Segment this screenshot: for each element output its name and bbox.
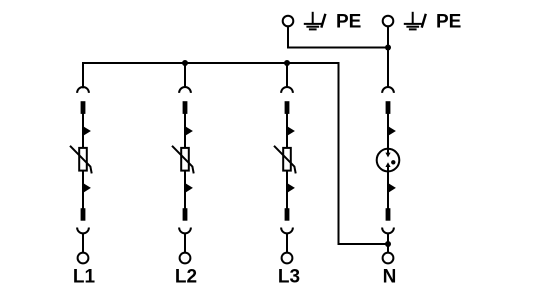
contact bar upper L1 bbox=[81, 101, 86, 114]
svg-text:L2: L2 bbox=[175, 267, 197, 288]
wire L3 upper bbox=[286, 114, 288, 149]
wire PE link horizontal bbox=[288, 47, 388, 49]
disconnect arrow lower L2 bbox=[186, 184, 193, 193]
ground symbol right bbox=[404, 12, 422, 30]
terminal circle L3 bbox=[282, 253, 293, 264]
junction PE node bbox=[385, 45, 391, 51]
contact bar lower N bbox=[386, 208, 391, 221]
wire L1 riser bbox=[82, 63, 84, 87]
disconnect arrow upper N bbox=[389, 127, 396, 135]
wire L2 stem to terminal bbox=[184, 234, 186, 253]
contact bar lower L1 bbox=[81, 208, 86, 221]
disconnect arrow lower L3 bbox=[288, 184, 295, 193]
contact bar lower L3 bbox=[285, 208, 290, 221]
svg-text:N: N bbox=[383, 267, 397, 288]
wire bus right drop bbox=[338, 63, 340, 244]
connector arc bottom N bbox=[382, 228, 394, 234]
svg-text:L3: L3 bbox=[278, 267, 300, 288]
terminal circle L1 bbox=[78, 253, 89, 264]
svg-text:PE: PE bbox=[336, 12, 361, 33]
wire N stem to terminal bbox=[387, 234, 389, 253]
wire L2 lower bbox=[184, 171, 186, 209]
disconnect arrow lower N bbox=[389, 184, 396, 193]
wire N upper bbox=[387, 114, 389, 149]
wire L1 upper bbox=[82, 114, 84, 149]
contact bar lower L2 bbox=[183, 208, 188, 221]
disconnect arrow upper L3 bbox=[288, 127, 295, 135]
terminal circle PE left bbox=[283, 16, 294, 27]
terminal circle PE right bbox=[383, 16, 394, 27]
svg-text:PE: PE bbox=[436, 12, 461, 33]
connector arc top N bbox=[382, 87, 394, 93]
junction bus at L3 bbox=[284, 60, 290, 66]
connector arc bottom L2 bbox=[179, 228, 191, 234]
wire L3 lower bbox=[286, 171, 288, 209]
junction N node bbox=[385, 241, 391, 247]
contact bar upper N bbox=[386, 101, 391, 114]
wire L2 upper bbox=[184, 114, 186, 149]
disconnect arrow upper L2 bbox=[186, 127, 193, 135]
svg-text:L1: L1 bbox=[73, 267, 96, 288]
wire L2 riser bbox=[184, 63, 186, 87]
label / PE right bbox=[422, 12, 462, 33]
gas discharge tube N bbox=[377, 149, 400, 172]
disconnect arrow upper L1 bbox=[84, 127, 91, 135]
disconnect arrow lower L1 bbox=[84, 184, 91, 193]
varistor L1 bbox=[70, 146, 92, 174]
wire N branch link bbox=[339, 243, 389, 245]
wire L1 stem to terminal bbox=[82, 234, 84, 253]
varistor L2 bbox=[172, 146, 194, 174]
connector arc top L3 bbox=[281, 87, 293, 93]
wire N lower bbox=[387, 171, 389, 209]
terminal circle L2 bbox=[180, 253, 191, 264]
ground symbol left bbox=[304, 12, 322, 30]
terminal circle N bbox=[383, 253, 394, 264]
connector arc bottom L1 bbox=[77, 228, 89, 234]
contact bar upper L3 bbox=[285, 101, 290, 114]
connector arc top L2 bbox=[179, 87, 191, 93]
wire L3 stem to terminal bbox=[286, 234, 288, 253]
wire right PE drop to N connector bbox=[387, 26, 389, 87]
contact bar upper L2 bbox=[183, 101, 188, 114]
label / PE left bbox=[321, 12, 361, 33]
wire left PE drop bbox=[287, 26, 289, 47]
connector arc top L1 bbox=[77, 87, 89, 93]
wire top bus bbox=[83, 62, 339, 64]
wire L3 riser bbox=[286, 63, 288, 87]
varistor L3 bbox=[274, 146, 296, 174]
junction bus at L2 bbox=[182, 60, 188, 66]
wire L1 lower bbox=[82, 171, 84, 209]
connector arc bottom L3 bbox=[281, 228, 293, 234]
